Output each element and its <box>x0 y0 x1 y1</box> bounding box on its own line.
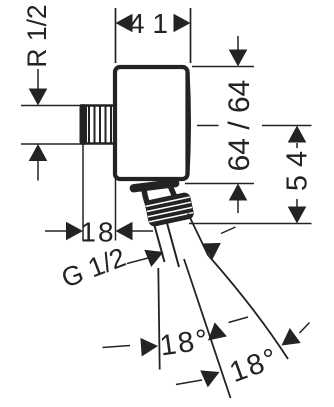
svg-text:4 1: 4 1 <box>129 8 168 39</box>
svg-text:18: 18 <box>80 217 115 248</box>
svg-text:R 1/2: R 1/2 <box>22 4 52 67</box>
svg-text:64 / 64: 64 / 64 <box>223 80 256 172</box>
svg-text:5 4: 5 4 <box>282 151 314 191</box>
